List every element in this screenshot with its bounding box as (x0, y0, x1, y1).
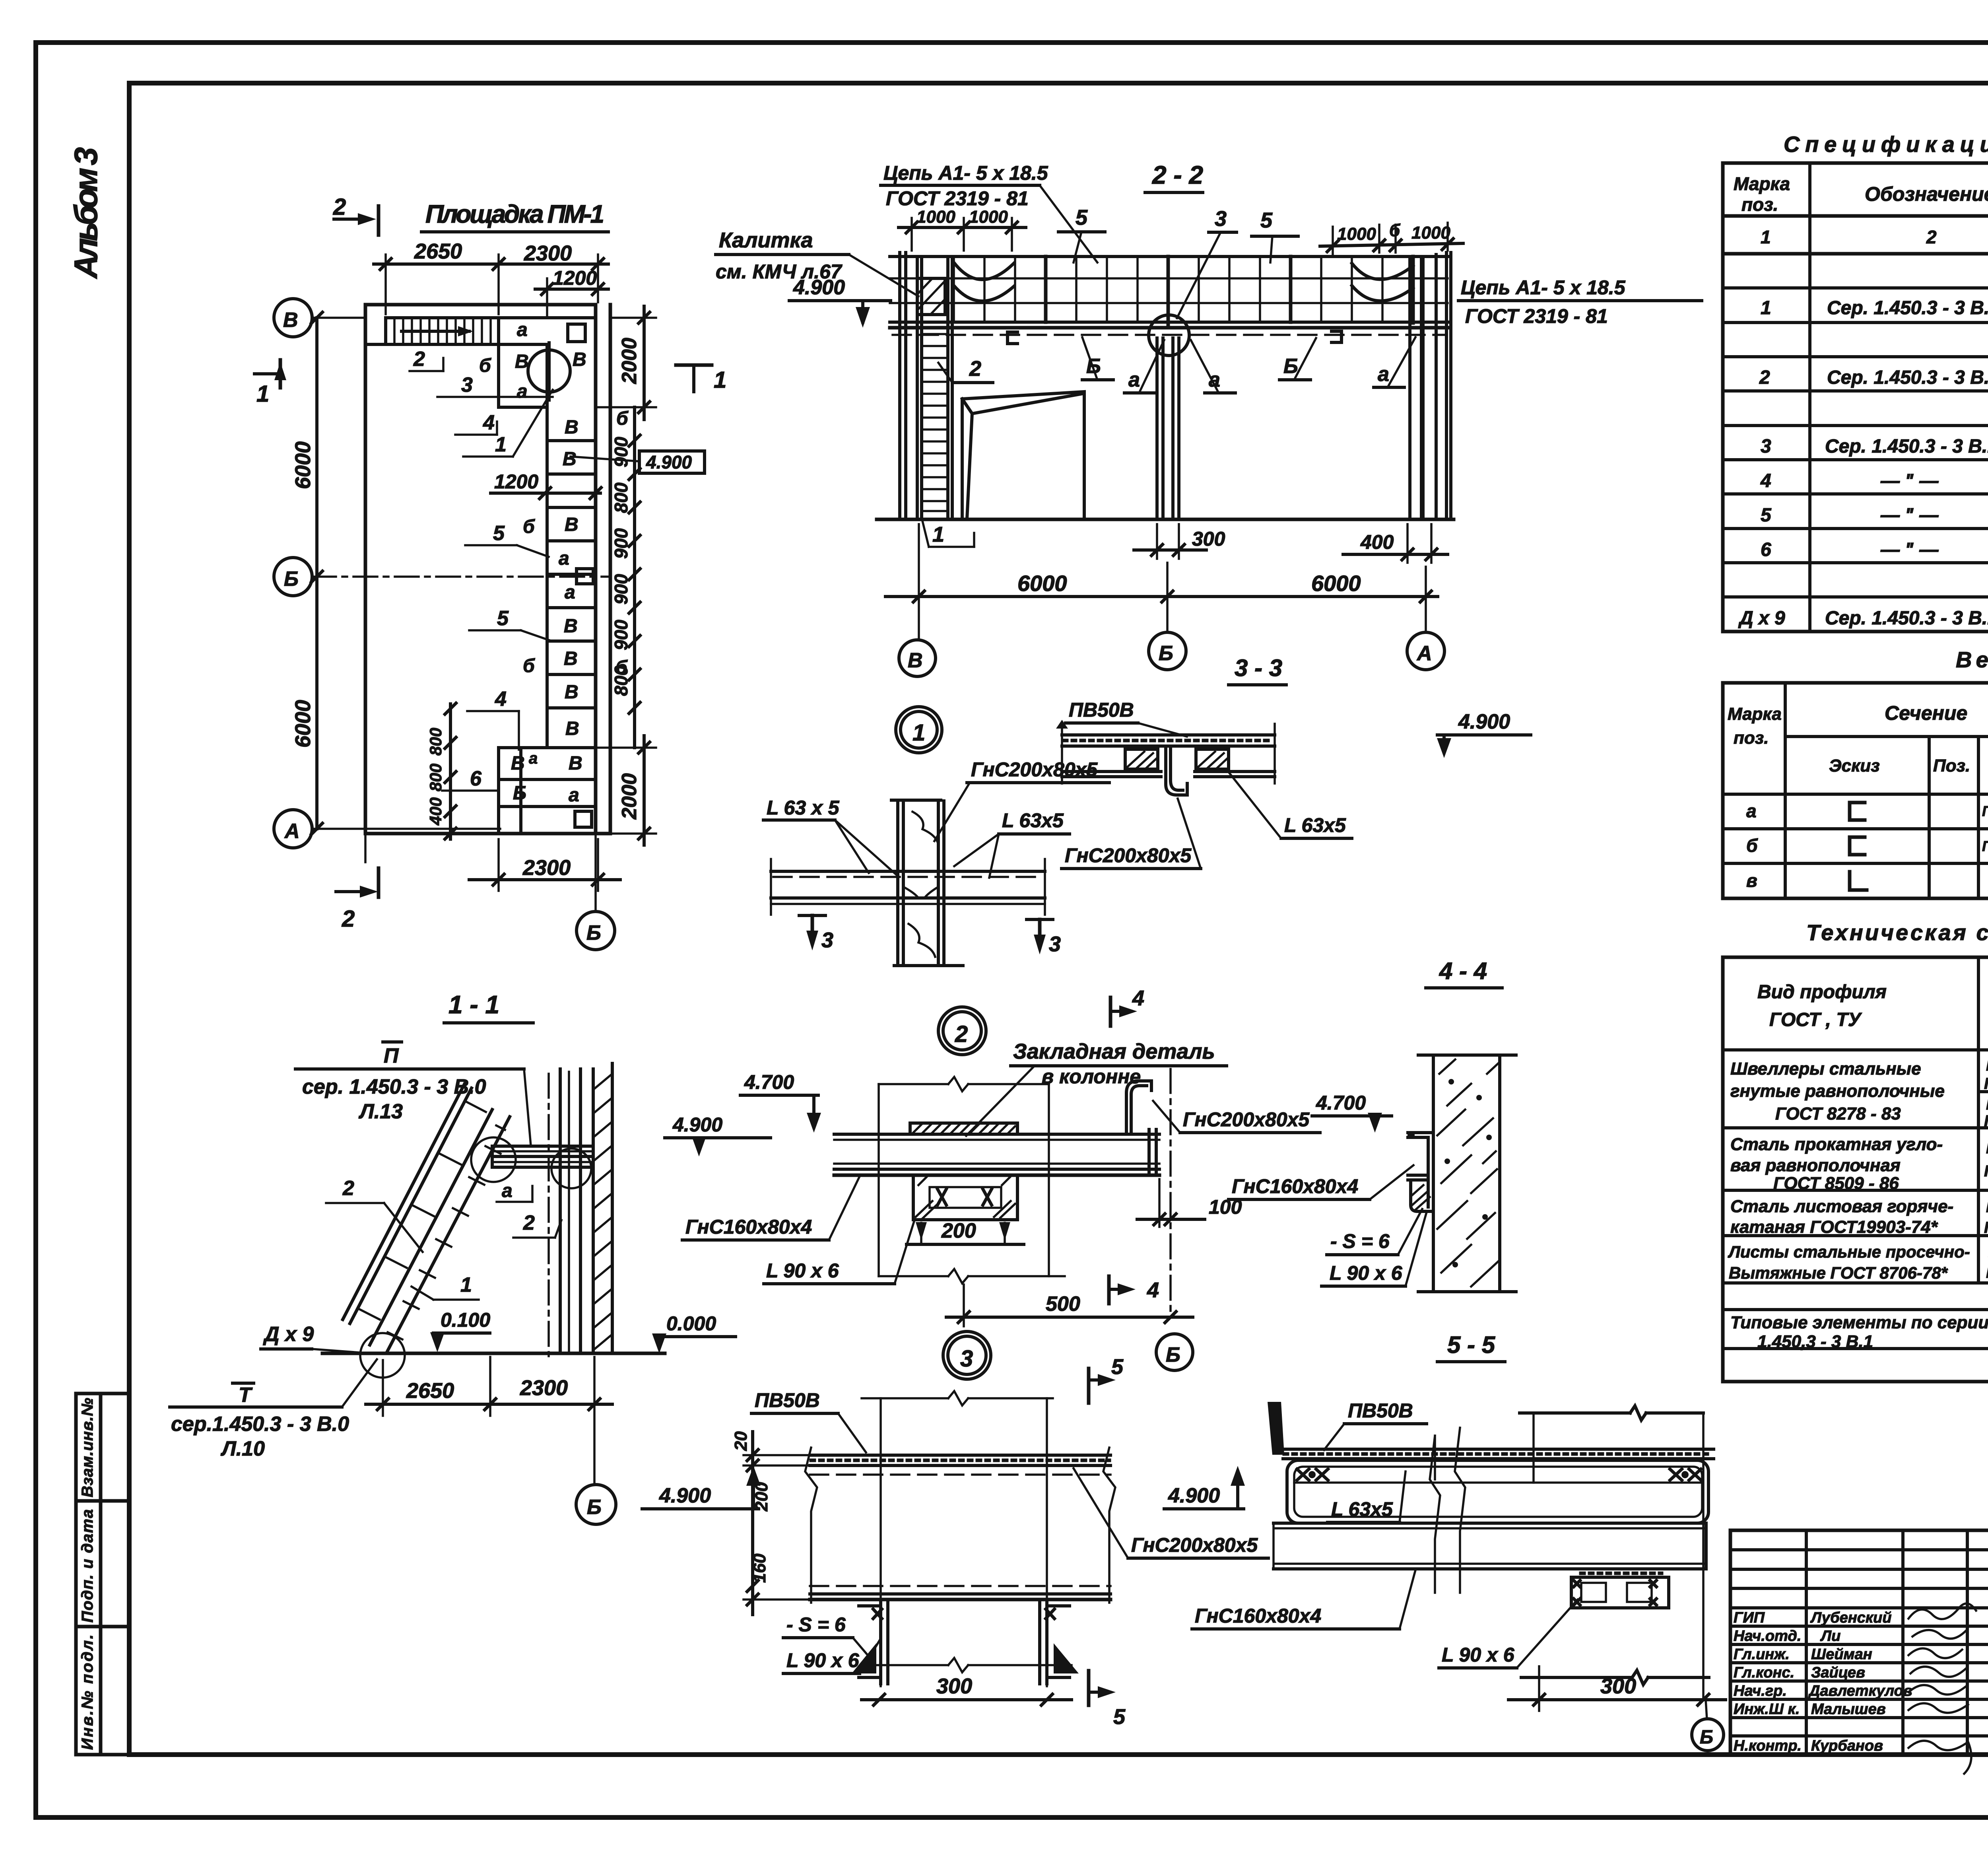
label L63х5 of 3-3 (1227, 770, 1352, 838)
level 4.900 detail 3 (642, 1466, 761, 1509)
svg-text:200: 200 (941, 1219, 976, 1242)
1-1 label 1 stair (412, 1273, 479, 1300)
svg-text:б: б (1389, 221, 1401, 240)
svg-text:5: 5 (1076, 206, 1088, 229)
leader label 1 bottom (922, 521, 974, 547)
tech spec grid (1723, 957, 1988, 1382)
ladder rails (917, 257, 952, 519)
label ГнС160х80х4 of 5-5 (1192, 1570, 1415, 1629)
chain sag right (1352, 263, 1413, 301)
dimension 300 detail 3 (862, 1674, 1072, 1705)
plan view title Площадка ПМ-1 (421, 200, 608, 232)
label ГнС200х80х5 detail 1 (934, 758, 1109, 841)
dimension 1000 1000 above left (899, 207, 1026, 251)
spec table column numbers (1761, 227, 1988, 247)
svg-text:а: а (1378, 363, 1389, 386)
svg-text:300: 300 (1192, 528, 1225, 550)
label Цепь right (1458, 276, 1702, 327)
dimension 500 (946, 1285, 1193, 1326)
svg-text:Сер. 1.450.3 - 3 В.1: Сер. 1.450.3 - 3 В.1 (1827, 367, 1988, 388)
svg-text:- S = 6: - S = 6 (786, 1613, 846, 1636)
svg-text:2000: 2000 (618, 338, 641, 384)
1-1 label 2 (513, 1211, 561, 1238)
platform floor beam 4.900 (890, 322, 1448, 335)
platform plan outline (365, 305, 610, 834)
1-1 detail circles (471, 1137, 516, 1182)
svg-text:160: 160 (750, 1553, 769, 1583)
svg-text:900: 900 (611, 620, 631, 650)
svg-text:3: 3 (1215, 207, 1227, 231)
label Закладная деталь в колонне (966, 1040, 1227, 1136)
section mark 4 top (1110, 986, 1144, 1026)
svg-text:Обозначение: Обозначение (1865, 183, 1988, 205)
svg-text:5: 5 (1111, 1355, 1124, 1379)
svg-text:L 90 х 6: L 90 х 6 (766, 1259, 839, 1282)
svg-text:2: 2 (342, 906, 355, 932)
svg-text:вая равнополочная: вая равнополочная (1730, 1156, 1901, 1175)
svg-text:В: В (908, 649, 923, 672)
svg-text:1: 1 (1761, 227, 1771, 247)
railing top rail (890, 255, 1448, 258)
svg-text:1.450,3 - 3 В.1: 1.450,3 - 3 В.1 (1757, 1332, 1873, 1351)
svg-text:Сталь прокатная угло-: Сталь прокатная угло- (1730, 1135, 1943, 1154)
svg-text:2: 2 (1759, 367, 1770, 388)
svg-text:Вст3 кп2: Вст3 кп2 (1986, 1198, 1988, 1216)
tech spec row 1 channels (1730, 1057, 1988, 1130)
svg-text:ГОСТ380-71: ГОСТ380-71 (1986, 1264, 1988, 1281)
level 4.900 of 3-3 (1437, 710, 1531, 758)
svg-text:Н.контр.: Н.контр. (1734, 1738, 1802, 1754)
svg-text:ГнС200х80х5: ГнС200х80х5 (1982, 838, 1988, 854)
dimension 2000 right bottom (596, 736, 656, 845)
svg-text:ПВ50В: ПВ50В (755, 1389, 820, 1411)
svg-text:L 90 х 6: L 90 х 6 (1442, 1644, 1515, 1666)
svg-text:3: 3 (960, 1346, 973, 1372)
svg-text:6: 6 (1761, 539, 1771, 560)
ladder rungs (922, 334, 948, 511)
svg-text:2300: 2300 (520, 1376, 568, 1400)
section mark 1 right (676, 365, 726, 393)
detail bubble 2 (938, 1007, 986, 1055)
svg-text:Сер. 1.450.3 - 3 В.1: Сер. 1.450.3 - 3 В.1 (1827, 297, 1988, 319)
svg-text:0.000: 0.000 (666, 1312, 716, 1335)
svg-text:4.900: 4.900 (659, 1484, 711, 1507)
detail circle at Б (1149, 315, 1189, 356)
chain sag left (954, 262, 1014, 301)
svg-text:катаная ГОСТ19903-74*: катаная ГОСТ19903-74* (1730, 1217, 1938, 1237)
svg-text:1200: 1200 (494, 470, 538, 493)
grid circle Б bottom of plan (577, 834, 615, 950)
detail 3 dimensions 20 200 160 (731, 1431, 810, 1615)
svg-text:б: б (1746, 835, 1758, 856)
svg-text:L 90 х 6: L 90 х 6 (1330, 1262, 1403, 1284)
grid bubble Б of 5-5 (1692, 1700, 1724, 1751)
svg-text:Гл.инж.: Гл.инж. (1734, 1646, 1790, 1663)
column axis dash-dot (1169, 1069, 1172, 1316)
svg-text:4.900: 4.900 (672, 1114, 722, 1136)
svg-text:ГОСТ 8509 - 86: ГОСТ 8509 - 86 (1773, 1174, 1899, 1193)
vertical dimension 6000/6000 left (291, 312, 322, 834)
3-3 angle brackets (1125, 749, 1229, 769)
svg-text:Б: Б (586, 921, 601, 945)
leader label 4 (455, 411, 497, 435)
svg-text:2300: 2300 (522, 856, 571, 880)
svg-text:б: б (523, 655, 535, 676)
svg-text:Сечение: Сечение (1885, 702, 1967, 724)
svg-text:ГОСТ 380-71: ГОСТ 380-71 (1984, 1219, 1988, 1236)
svg-text:4.700: 4.700 (744, 1071, 794, 1093)
section title 4-4 (1426, 958, 1502, 988)
svg-text:L 63х5: L 63х5 (1002, 809, 1064, 832)
grid circle В (274, 299, 365, 337)
svg-text:1200: 1200 (553, 267, 597, 289)
svg-text:6000: 6000 (291, 700, 315, 748)
svg-text:Б: Б (1159, 642, 1173, 665)
left margin stamp table (76, 1394, 129, 1755)
svg-text:4.900: 4.900 (793, 276, 845, 299)
1-1 axis dash-dot (547, 1074, 550, 1356)
1-1 wall hatched (593, 1063, 612, 1352)
svg-text:1: 1 (714, 367, 726, 393)
label Цепь А1-5х18.5 ГОСТ 2319-81 left (881, 162, 1097, 262)
svg-text:5: 5 (493, 522, 505, 545)
svg-text:900: 900 (611, 437, 631, 467)
detail 3 deck (805, 1448, 1115, 1603)
railing mesh verticals (954, 257, 1413, 322)
signatures squiggles (1908, 1603, 1976, 1774)
svg-text:— ʺ —: — ʺ — (1880, 505, 1939, 526)
leader label 1 (463, 390, 553, 457)
svg-text:2: 2 (342, 1177, 354, 1200)
tech spec header (1757, 966, 1988, 1050)
4-4 wall bracket channel (1408, 1131, 1433, 1211)
svg-text:5: 5 (1761, 505, 1772, 526)
svg-text:4.700: 4.700 (1316, 1092, 1366, 1114)
label L63х5 of 5-5 (1328, 1471, 1406, 1522)
svg-text:Вст 3 кп 2: Вст 3 кп 2 (1986, 1139, 1988, 1157)
grid circle Б (1149, 632, 1186, 670)
level mark 4.900 left of 2-2 (789, 276, 891, 328)
svg-text:2000: 2000 (618, 773, 641, 820)
label L90х6 detail 3 (783, 1640, 879, 1673)
svg-text:1000: 1000 (969, 207, 1008, 227)
5-5 bottom dim line (1521, 1670, 1709, 1685)
dimension 1200 top (535, 267, 608, 318)
svg-text:0.100: 0.100 (441, 1309, 490, 1331)
detail bubble 1 (896, 707, 942, 753)
svg-text:сер.1.450.3 - 3 В.0: сер.1.450.3 - 3 В.0 (171, 1413, 349, 1436)
1-1 column (560, 1069, 580, 1352)
svg-text:5: 5 (1113, 1705, 1126, 1729)
title block grid (1730, 1530, 1988, 1755)
column В (900, 253, 906, 519)
svg-text:2650: 2650 (406, 1379, 454, 1403)
level box 4.900 (571, 451, 705, 473)
leader label 2 (410, 348, 443, 371)
square holes (568, 324, 585, 342)
spec table grid (1723, 163, 1988, 632)
grid circle В (899, 640, 936, 676)
1-1 dimension 2650 2300 (366, 1357, 612, 1416)
svg-text:2: 2 (969, 357, 981, 381)
embedded plate with hatch (910, 1123, 1017, 1134)
svg-text:Сер. 1.450.3 - 3 В.1: Сер. 1.450.3 - 3 В.1 (1825, 436, 1988, 457)
1-1 stair stringer (370, 1110, 510, 1353)
svg-text:800: 800 (426, 764, 445, 791)
section mark 1 left (254, 360, 286, 407)
svg-text:Б: Б (1700, 1727, 1713, 1748)
dimension 300 at Б (1134, 524, 1225, 559)
svg-text:Подп. и дата: Подп. и дата (79, 1509, 96, 1623)
detail 2 cut boundary (879, 1077, 1065, 1283)
svg-text:а: а (1209, 368, 1220, 391)
svg-text:а: а (529, 750, 538, 767)
1-1 label 2 upper stair (326, 1177, 423, 1252)
svg-text:Ли: Ли (1820, 1628, 1840, 1644)
svg-text:В: В (565, 417, 579, 438)
svg-text:L 63х5: L 63х5 (1284, 814, 1346, 836)
grid circle А (274, 810, 500, 848)
svg-text:Вид профиля: Вид профиля (1757, 982, 1887, 1003)
svg-text:Марка: Марка (1734, 173, 1790, 194)
svg-text:Нач.отд.: Нач.отд. (1734, 1628, 1801, 1644)
svg-text:5 - 5: 5 - 5 (1447, 1331, 1496, 1358)
section mark 5 top (1089, 1355, 1124, 1403)
svg-text:Листы стальные просечно-: Листы стальные просечно- (1728, 1242, 1970, 1261)
vedomost table grid (1723, 683, 1988, 898)
svg-text:Вст3 кп2: Вст3 кп2 (1986, 1057, 1988, 1074)
svg-text:4: 4 (1147, 1278, 1159, 1302)
svg-text:Взам.инв.№: Взам.инв.№ (79, 1398, 96, 1497)
svg-text:— ʺ —: — ʺ — (1880, 470, 1939, 492)
svg-text:Нач.гр.: Нач.гр. (1734, 1683, 1787, 1699)
svg-text:а: а (565, 582, 575, 603)
leader label 5 left (1058, 206, 1105, 262)
svg-text:3: 3 (1761, 436, 1771, 457)
svg-text:1: 1 (912, 720, 925, 746)
level 4.900 of 5-5 (1164, 1466, 1245, 1509)
svg-text:Б: Б (587, 1496, 602, 1519)
svg-text:400: 400 (1360, 531, 1394, 553)
svg-text:6000: 6000 (1311, 571, 1361, 596)
leader label 5 right (1252, 208, 1298, 262)
svg-text:Альбом 3: Альбом 3 (68, 147, 104, 279)
svg-text:5: 5 (1260, 208, 1273, 232)
label ГнС160х80х4 pointing to 4-4 (1229, 1165, 1413, 1199)
leader label 6 (442, 767, 499, 791)
svg-text:Площадка ПМ-1: Площадка ПМ-1 (425, 200, 604, 228)
svg-text:ГОСТ 380-71: ГОСТ 380-71 (1984, 1112, 1988, 1130)
label ПВ50В detail 3 (751, 1389, 866, 1452)
svg-text:500: 500 (1046, 1292, 1080, 1316)
label ГнС200х80х5 of 3-3 (1062, 799, 1201, 869)
5-5 upper beam outline (1287, 1460, 1708, 1523)
leader label 5 lower (469, 607, 549, 640)
svg-text:L 63х5: L 63х5 (1331, 1498, 1393, 1520)
detail 3 bottom boundary (862, 1658, 1072, 1672)
svg-text:б: б (616, 408, 629, 429)
dimension 900 series right (611, 407, 640, 748)
svg-text:ПВ50В: ПВ50В (1069, 699, 1134, 721)
svg-text:В: В (283, 309, 298, 332)
svg-text:1: 1 (932, 523, 944, 546)
svg-text:Швеллеры стальные: Швеллеры стальные (1730, 1059, 1921, 1079)
svg-text:ГнС160х80х4: ГнС160х80х4 (685, 1216, 812, 1238)
svg-text:а: а (1746, 801, 1757, 821)
svg-text:Гл.конс.: Гл.конс. (1734, 1664, 1794, 1681)
svg-text:ГнС200х80х5: ГнС200х80х5 (1065, 844, 1192, 867)
svg-text:Курбанов: Курбанов (1811, 1738, 1883, 1754)
1-1 level 0.000 (652, 1312, 736, 1353)
svg-text:в: в (1746, 870, 1757, 891)
svg-text:ГнС160х80х4: ГнС160х80х4 (1195, 1605, 1321, 1627)
svg-text:L 63 х 5: L 63 х 5 (767, 797, 840, 819)
gate hatched panel (917, 278, 945, 315)
svg-text:3: 3 (821, 928, 833, 952)
svg-text:1: 1 (495, 433, 507, 456)
svg-text:В: В (563, 449, 577, 470)
dimension 2300 bottom (469, 839, 620, 891)
spec table header (1734, 173, 1988, 215)
svg-text:Д х 9: Д х 9 (1738, 608, 1785, 629)
svg-text:гнутые равнополочные: гнутые равнополочные (1730, 1081, 1945, 1101)
label ГнС200х80х5 detail 3 (1074, 1468, 1268, 1558)
svg-text:Т: Т (239, 1384, 253, 1407)
svg-text:В: В (564, 616, 578, 637)
channel hook on beam (1126, 1081, 1151, 1134)
dimension 100 (1137, 1179, 1242, 1227)
stair flight in plan (386, 318, 499, 344)
svg-text:В: В (564, 648, 578, 669)
svg-text:ГИП: ГИП (1734, 1609, 1765, 1626)
5-5 break lines (1430, 1428, 1465, 1593)
label ПВ50В of 3-3 (1066, 699, 1187, 737)
round opening in plan (528, 350, 570, 392)
svg-text:ГнС200х80х5: ГнС200х80х5 (1183, 1108, 1310, 1131)
svg-text:А: А (284, 820, 300, 843)
dimension 2000 right top (596, 306, 656, 420)
tech spec row 4 expanded sheets (1728, 1242, 1988, 1282)
dimension 300 of 5-5 (1508, 1674, 1726, 1705)
3-3 hanging channel (1166, 748, 1187, 795)
svg-text:б: б (615, 657, 628, 678)
section title 3-3 (1229, 655, 1286, 685)
grid bubble Б of detail 2 (1156, 1334, 1193, 1370)
svg-text:Цепь А1- 5 х 18.5: Цепь А1- 5 х 18.5 (1461, 276, 1626, 299)
svg-text:6000: 6000 (1017, 571, 1067, 596)
svg-text:4: 4 (495, 688, 507, 711)
label -S=6 detail 3 (783, 1613, 869, 1656)
svg-text:ПВ50В: ПВ50В (1348, 1399, 1413, 1422)
svg-text:2650: 2650 (414, 239, 462, 263)
svg-text:- S = 6: - S = 6 (1330, 1230, 1390, 1252)
dimension 400/800/800 left of bottom block (426, 703, 456, 839)
svg-text:ГнС200х80х5: ГнС200х80х5 (1131, 1534, 1258, 1556)
section mark 2 bottom (336, 834, 379, 932)
railing posts (1046, 257, 1413, 328)
channel glyphs on beam (1008, 331, 1342, 344)
svg-text:ГОСТ 380-71: ГОСТ 380-71 (1984, 1162, 1988, 1180)
dimension 2650 / 2300 top (374, 239, 608, 314)
svg-text:Л.10: Л.10 (220, 1437, 265, 1460)
svg-text:Малышев: Малышев (1811, 1701, 1886, 1718)
label L63х5 right detail 1 (954, 809, 1070, 878)
svg-text:6000: 6000 (291, 441, 315, 489)
svg-text:Вытяжные ГОСТ 8706-78*: Вытяжные ГОСТ 8706-78* (1729, 1263, 1948, 1282)
svg-text:Сталь листовая горяче-: Сталь листовая горяче- (1730, 1197, 1953, 1216)
dimension 1000 б 1000 above right (1320, 221, 1463, 255)
svg-text:ГнС160х80х4: ГнС160х80х4 (1982, 803, 1988, 819)
section mark 2 top (333, 194, 379, 235)
3-3 deck (1056, 720, 1275, 783)
svg-text:б: б (479, 355, 491, 376)
ground line (877, 518, 1454, 521)
svg-text:4.900: 4.900 (1458, 710, 1510, 733)
svg-text:— ʺ —: — ʺ — (1880, 539, 1939, 560)
svg-text:800: 800 (611, 482, 631, 513)
svg-text:а: а (569, 785, 579, 806)
svg-text:Д х 9: Д х 9 (263, 1323, 314, 1346)
svg-text:Инв.№ подл.: Инв.№ подл. (79, 1635, 96, 1750)
svg-text:Л.13: Л.13 (358, 1100, 403, 1123)
column А and wall (1410, 255, 1436, 519)
vedomost row а (1746, 800, 1988, 821)
label ГнС160х80х4 floating (682, 1176, 860, 1240)
svg-text:Б: Б (284, 568, 299, 591)
tech spec row 3 sheet (1730, 1197, 1988, 1237)
svg-text:1000: 1000 (1411, 223, 1450, 243)
svg-text:ГОСТ 2319 - 81: ГОСТ 2319 - 81 (1465, 305, 1608, 327)
panel strip cells (499, 441, 596, 834)
svg-text:5: 5 (497, 607, 509, 630)
bottom bracket of detail 2 (913, 1175, 1017, 1220)
label ПВ50В of 5-5 (1324, 1399, 1427, 1450)
svg-text:Лубенский: Лубенский (1810, 1609, 1892, 1626)
label Калитка см. КМЧ л.67 (716, 228, 918, 296)
svg-text:Вст3 пс4: Вст3 пс4 (1986, 1096, 1988, 1113)
svg-text:900: 900 (611, 574, 631, 604)
svg-text:2 - 2: 2 - 2 (1152, 161, 1203, 189)
spec table rows (1738, 262, 1988, 629)
5-5 top dim line (1520, 1406, 1703, 1700)
svg-text:1: 1 (256, 381, 269, 407)
svg-text:Эскиз: Эскиз (1829, 756, 1880, 775)
5-5 lower beam (1274, 1523, 1706, 1569)
svg-text:ГОСТ , ТУ: ГОСТ , ТУ (1769, 1009, 1862, 1030)
1-1 platform beam (492, 1146, 593, 1167)
dimension 200 of bracket (907, 1219, 1024, 1244)
vedomost header (1728, 696, 1988, 793)
leader label 3 (437, 373, 553, 397)
svg-text:ГОСТ 380-71: ГОСТ 380-71 (1984, 1075, 1988, 1092)
vedomost row б (1746, 835, 1988, 856)
1-1 level 0.100 (430, 1309, 490, 1352)
vedomost row в (1746, 870, 1988, 894)
leader label 5 upper (465, 522, 549, 557)
svg-text:Марка: Марка (1728, 704, 1782, 724)
svg-text:4: 4 (1760, 470, 1771, 492)
svg-text:Закладная деталь: Закладная деталь (1013, 1040, 1215, 1063)
4-4 wall with hatch (1418, 1055, 1516, 1292)
1-1 grid bubble Б (576, 1357, 616, 1524)
1-1 stair railing (343, 1084, 486, 1324)
svg-text:а: а (517, 381, 528, 402)
svg-text:а: а (517, 319, 528, 340)
svg-text:б: б (523, 516, 535, 537)
section title 1-1 (444, 990, 533, 1023)
1-1 level 4.900 (665, 1114, 771, 1156)
tech spec row 2 angles (1730, 1134, 1988, 1193)
